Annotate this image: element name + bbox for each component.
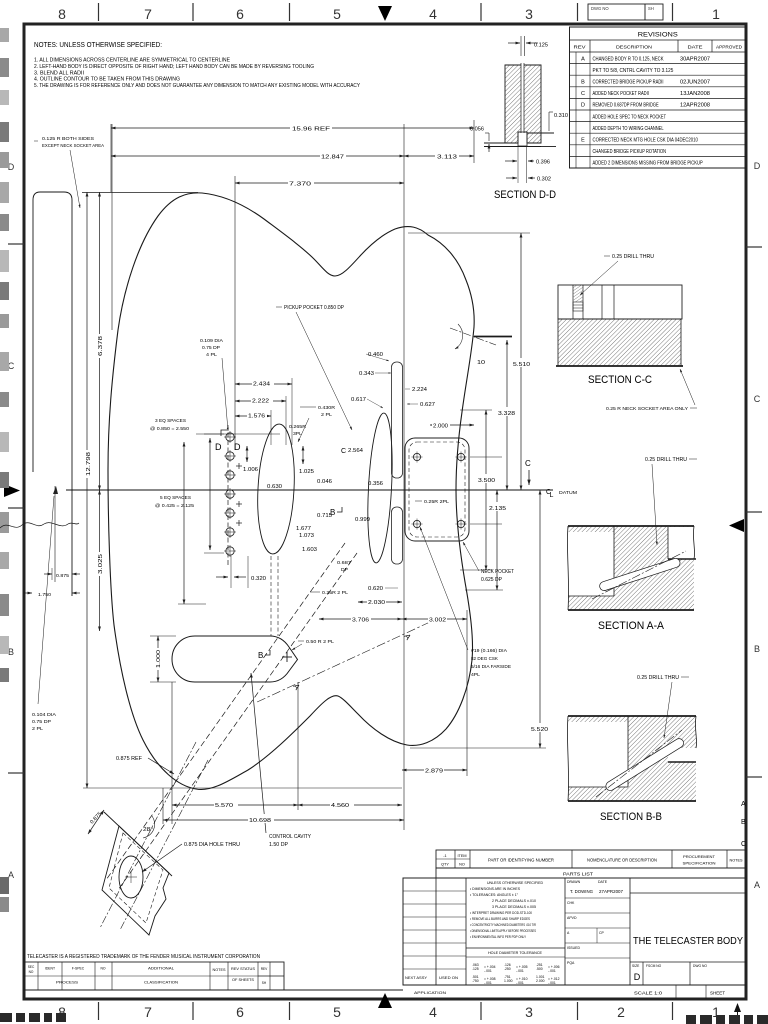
svg-text:• REMOVE ALL BURRS AND SHARP E: • REMOVE ALL BURRS AND SHARP EDGES [470, 917, 530, 921]
svg-text:• DIMENSIONS ARE IN INCHES: • DIMENSIONS ARE IN INCHES [470, 887, 521, 891]
svg-text:30APR2007: 30APR2007 [680, 56, 710, 62]
bottom dims [171, 682, 173, 824]
svg-text:A: A [741, 801, 746, 808]
svg-text:4. OUTLINE CONTOUR TO BE TAKEN: 4. OUTLINE CONTOUR TO BE TAKEN FROM THIS… [34, 77, 180, 83]
svg-text:10: 10 [477, 360, 485, 366]
svg-text:HOLE DIAMETER TOLERANCE: HOLE DIAMETER TOLERANCE [488, 951, 542, 955]
dim 12.798 [86, 192, 88, 788]
svg-text:7.370: 7.370 [289, 182, 311, 188]
dim 12.847 [403, 124, 405, 830]
svg-text:B: B [330, 508, 335, 517]
svg-text:NO: NO [29, 970, 34, 974]
section cut dashed lines to jack [106, 543, 345, 880]
svg-text:1.50 DP: 1.50 DP [269, 842, 289, 848]
svg-text:CORRECTED BRIDGE PICKUP RADII: CORRECTED BRIDGE PICKUP RADII [593, 80, 664, 86]
svg-text:2.564: 2.564 [348, 448, 363, 454]
eq spaces dim lines [204, 433, 224, 435]
svg-text:NOTES: UNLESS OTHERWISE SPECIF: NOTES: UNLESS OTHERWISE SPECIFIED: [34, 42, 162, 49]
svg-text:C: C [341, 448, 346, 455]
svg-text:NOMENCLATURE OR DESCRIPTION: NOMENCLATURE OR DESCRIPTION [587, 858, 657, 863]
svg-text:-.001: -.001 [548, 969, 556, 973]
svg-text:SECTION A-A: SECTION A-A [598, 620, 665, 632]
svg-text:13JAN2008: 13JAN2008 [680, 91, 710, 97]
svg-text:F-SPEC: F-SPEC [72, 967, 85, 971]
svg-text:4: 4 [429, 6, 437, 22]
svg-text:B: B [754, 644, 760, 654]
svg-text:C: C [525, 459, 531, 468]
svg-text:5/16 DIA FARSIDE: 5/16 DIA FARSIDE [471, 664, 511, 670]
bottom center arrow [378, 993, 392, 1008]
svg-text:L: L [550, 492, 554, 499]
svg-text:02JUN2007: 02JUN2007 [680, 80, 710, 86]
svg-text:0.627: 0.627 [420, 402, 435, 408]
svg-text:7: 7 [144, 6, 152, 22]
svg-text:1.006: 1.006 [243, 467, 258, 473]
svg-text:3.025: 3.025 [98, 554, 104, 574]
svg-text:ADDED HOLE SPEC TO NECK POCKET: ADDED HOLE SPEC TO NECK POCKET [593, 114, 667, 120]
svg-text:EXCEPT NECK SOCKET AREA: EXCEPT NECK SOCKET AREA [42, 143, 105, 149]
svg-text:NOTES: NOTES [213, 968, 227, 972]
svg-text:0.625 DP: 0.625 DP [481, 577, 503, 583]
svg-text:82 DEG CSK: 82 DEG CSK [471, 656, 499, 662]
svg-text:1.677: 1.677 [296, 526, 311, 532]
svg-text:CHANGED BODY R TO 0.125, NECK: CHANGED BODY R TO 0.125, NECK [593, 56, 664, 62]
svg-text:0.396: 0.396 [536, 160, 550, 166]
svg-text:-.001: -.001 [484, 981, 492, 985]
svg-text:3.328: 3.328 [498, 411, 515, 417]
string ferrule holes [226, 433, 234, 441]
section D-D hatched block [505, 65, 541, 143]
svg-text:PICKUP POCKET 0.850 DP: PICKUP POCKET 0.850 DP [284, 305, 345, 311]
svg-text:0.25R 2PL: 0.25R 2PL [424, 499, 449, 505]
svg-text:D: D [215, 442, 222, 452]
svg-text:CLASSIFICATION: CLASSIFICATION [144, 981, 178, 985]
svg-text:B: B [258, 651, 263, 660]
dim 1.576 [270, 410, 272, 445]
svg-text:FSCM NO: FSCM NO [646, 964, 662, 968]
jack dash-dot lines [120, 760, 208, 930]
svg-text:REV: REV [261, 967, 268, 971]
svg-text:5.520: 5.520 [531, 727, 548, 733]
svg-text:0.046: 0.046 [317, 479, 332, 485]
svg-text:0.356: 0.356 [368, 481, 383, 487]
centerline datum [66, 489, 553, 491]
A-A slot [599, 557, 682, 592]
svg-text:4: 4 [429, 1004, 437, 1020]
svg-text:REV: REV [574, 45, 586, 50]
dim 3.113 [404, 155, 474, 157]
squiggle break line [0, 523, 79, 528]
svg-text:1.000: 1.000 [156, 650, 162, 668]
svg-text:5. THE DRAWING IS FOR REFERENC: 5. THE DRAWING IS FOR REFERENCE ONLY AND… [34, 83, 360, 89]
dim 0.125 top [520, 36, 522, 56]
bridge pickup oval [365, 413, 396, 564]
svg-text:E: E [581, 138, 585, 144]
svg-text:DATE: DATE [598, 880, 608, 884]
neck pickup oval [255, 423, 298, 555]
svg-text:CHK: CHK [567, 901, 575, 905]
svg-text:6.378: 6.378 [98, 336, 104, 356]
ruler zone ticks top [98, 3, 100, 21]
svg-text:0.875 REF: 0.875 REF [116, 756, 142, 762]
svg-text:• ENVIRONMENTAL INFO PER PDP O: • ENVIRONMENTAL INFO PER PDP ONLY [470, 935, 526, 939]
dim 0.056 [488, 133, 490, 141]
svg-text:• INTERPRET DRAWING PER DOD-ST: • INTERPRET DRAWING PER DOD-STD-100 [470, 911, 532, 915]
svg-text:2.224: 2.224 [412, 387, 427, 393]
svg-text:NO: NO [100, 967, 105, 971]
svg-text:SPECIFICATION: SPECIFICATION [683, 861, 716, 866]
dim 0.310 [548, 112, 550, 131]
svg-text:UNLESS OTHERWISE SPECIFIED: UNLESS OTHERWISE SPECIFIED [487, 881, 543, 885]
svg-text:SIZE: SIZE [632, 964, 640, 968]
svg-text:NOTES: NOTES [730, 859, 743, 863]
svg-text:.750: .750 [472, 979, 479, 983]
guitar body outline [108, 193, 474, 790]
svg-text:APVD: APVD [567, 916, 577, 920]
dim 0.875 diamond [88, 810, 104, 834]
svg-text:DRAWN: DRAWN [567, 880, 581, 884]
body side profile (thickness view) [33, 192, 72, 596]
svg-text:0.104 DIA: 0.104 DIA [32, 712, 57, 718]
svg-text:1.025: 1.025 [299, 469, 314, 475]
profile centerline [54, 486, 56, 582]
svg-text:2.222: 2.222 [252, 399, 269, 405]
svg-text:4PL: 4PL [471, 672, 480, 678]
svg-text:PQA: PQA [567, 961, 575, 965]
svg-text:ADDED NECK POCKET RADII: ADDED NECK POCKET RADII [593, 91, 649, 97]
svg-text:8: 8 [58, 6, 66, 22]
scan artifact marks left edge [0, 28, 9, 42]
svg-text:SHEET: SHEET [710, 991, 725, 996]
svg-text:0.056: 0.056 [470, 127, 484, 133]
svg-text:SH: SH [648, 6, 654, 11]
svg-text:0.75 DP: 0.75 DP [32, 719, 51, 725]
drawn/check rows [629, 878, 631, 985]
svg-text:• CONCENTRICITY MACHINED DIAME: • CONCENTRICITY MACHINED DIAMETERS .010 … [470, 923, 536, 927]
svg-text:D: D [234, 442, 241, 452]
svg-text:2 PLACE DECIMALS ±.010: 2 PLACE DECIMALS ±.010 [492, 899, 536, 903]
svg-text:3. BLEND ALL RADII: 3. BLEND ALL RADII [34, 70, 84, 76]
svg-text:.250: .250 [504, 967, 511, 971]
svg-text:-.001: -.001 [484, 969, 492, 973]
svg-text:OF SHEETS: OF SHEETS [232, 978, 255, 982]
svg-text:-1: -1 [443, 854, 446, 858]
svg-text:0.999: 0.999 [355, 517, 370, 523]
svg-text:6: 6 [236, 6, 244, 22]
svg-text:2.000: 2.000 [536, 979, 545, 983]
section D-D base lines [484, 142, 518, 144]
svg-text:7: 7 [144, 1004, 152, 1020]
zone ticks right [746, 246, 762, 248]
svg-text:ADDED DEPTH TO WIRING CHANNEL: ADDED DEPTH TO WIRING CHANNEL [593, 126, 664, 132]
svg-text:0.430R: 0.430R [318, 405, 336, 411]
wire channel dashed [270, 556, 272, 636]
saddle screw crosses [238, 463, 240, 469]
neck pocket holes [413, 453, 420, 460]
svg-text:ADDITIONAL: ADDITIONAL [148, 967, 174, 971]
svg-text:ISSUED: ISSUED [567, 946, 581, 950]
left dim verticals [111, 124, 113, 330]
svg-text:2.434: 2.434 [253, 382, 270, 388]
svg-text:2.879: 2.879 [425, 769, 443, 775]
svg-text:3 EQ SPACES: 3 EQ SPACES [155, 418, 186, 424]
section A-A block [568, 526, 694, 610]
svg-text:CHANGED BRIDGE PICKUP ROTATION: CHANGED BRIDGE PICKUP ROTATION [593, 149, 667, 155]
dim 6.378 [99, 192, 101, 490]
section B-B block [568, 716, 696, 801]
top center arrow [378, 6, 392, 21]
svg-text:0.343: 0.343 [359, 371, 374, 377]
svg-text:DWG NO: DWG NO [693, 964, 707, 968]
control cavity cross [286, 652, 288, 662]
svg-text:0.617: 0.617 [351, 397, 366, 403]
svg-text:0.109 DIA: 0.109 DIA [200, 338, 224, 344]
svg-text:SH: SH [262, 981, 267, 985]
svg-text:TELECASTER IS A REGISTERED TRA: TELECASTER IS A REGISTERED TRADEMARK OF … [27, 954, 260, 960]
svg-text:0.125: 0.125 [534, 43, 548, 49]
svg-text:3.706: 3.706 [352, 618, 369, 624]
svg-text:1. ALL DIMENSIONS ACROSS CENTE: 1. ALL DIMENSIONS ACROSS CENTERLINE ARE … [34, 58, 230, 64]
svg-text:5.570: 5.570 [215, 803, 233, 809]
svg-text:3 PLACE DECIMALS ±.005: 3 PLACE DECIMALS ±.005 [492, 905, 536, 909]
svg-text:PROCUREMENT: PROCUREMENT [683, 854, 716, 859]
svg-text:0.320: 0.320 [251, 576, 266, 582]
svg-text:ITEM: ITEM [457, 854, 466, 858]
svg-text:USED ON: USED ON [439, 976, 458, 980]
svg-text:SECTION C-C: SECTION C-C [588, 374, 652, 386]
svg-text:REMOVED 0.687DP FROM BRIDGE: REMOVED 0.687DP FROM BRIDGE [593, 103, 660, 109]
svg-text:5 EQ SPACES: 5 EQ SPACES [160, 495, 191, 501]
svg-text:5.510: 5.510 [513, 362, 530, 368]
svg-text:PROCESS: PROCESS [56, 981, 79, 985]
svg-text:B: B [741, 819, 746, 826]
svg-text:C: C [754, 394, 761, 404]
svg-text:0.310: 0.310 [554, 113, 568, 119]
svg-text:27APR2007: 27APR2007 [599, 889, 623, 894]
svg-text:D: D [754, 161, 761, 171]
bridge pickup slots [392, 362, 403, 478]
dwg-no box top right [588, 4, 663, 20]
svg-text:@ 0.425 = 2.125: @ 0.425 = 2.125 [155, 503, 194, 509]
section D-D slot [521, 63, 524, 133]
svg-text:5: 5 [333, 6, 341, 22]
svg-text:SECTION B-B: SECTION B-B [600, 811, 662, 823]
spec text block [564, 878, 566, 985]
svg-text:0.50 R 2 PL: 0.50 R 2 PL [306, 639, 334, 645]
svg-text:THE TELECASTER BODY: THE TELECASTER BODY [633, 935, 743, 947]
svg-text:NO: NO [459, 863, 465, 867]
dim 2.222 [285, 396, 287, 445]
dims 3.002 / 2.879 [466, 610, 468, 776]
svg-text:SEC: SEC [28, 965, 35, 969]
svg-text:2.000: 2.000 [433, 424, 448, 430]
svg-text:PARTS LIST: PARTS LIST [563, 872, 593, 877]
svg-text:DESCRIPTION: DESCRIPTION [616, 45, 652, 50]
svg-text:SECTION D-D: SECTION D-D [494, 189, 556, 201]
svg-text:REVISIONS: REVISIONS [638, 32, 679, 39]
svg-text:DATUM: DATUM [559, 490, 577, 496]
svg-text:C: C [581, 91, 585, 97]
10 deg arc [455, 324, 463, 349]
svg-text:0.125 R BOTH SIDES: 0.125 R BOTH SIDES [42, 136, 94, 142]
svg-text:A: A [581, 56, 585, 62]
svg-text:0.687: 0.687 [337, 560, 351, 566]
jack plate diamond [104, 812, 172, 876]
title block top strip [436, 850, 746, 868]
svg-text:DP: DP [341, 567, 348, 573]
left edge centering arrow [4, 484, 20, 497]
svg-text:3PL: 3PL [293, 431, 302, 437]
svg-text:0.25 DRILL THRU: 0.25 DRILL THRU [645, 457, 687, 463]
dim 2.434 [291, 378, 293, 445]
svg-text:6: 6 [236, 1004, 244, 1020]
svg-text:D: D [581, 103, 585, 109]
svg-text:2.135: 2.135 [489, 506, 506, 512]
svg-text:2. LEFT-HAND BODY IS DIRECT OP: 2. LEFT-HAND BODY IS DIRECT OPPOSITE OF … [34, 64, 314, 70]
bottom right small arrow [737, 1012, 739, 1022]
svg-text:A: A [754, 880, 760, 890]
right vertical dims [408, 232, 530, 234]
svg-text:• TOLERANCES: ANGLES ± 1°: • TOLERANCES: ANGLES ± 1° [470, 893, 519, 897]
revisions table [570, 27, 747, 168]
leader 0.104 dia [38, 496, 54, 704]
svg-text:DATE: DATE [688, 45, 703, 50]
svg-text:PKT TO 5/8, CNTRL CAVITY TO 3.: PKT TO 5/8, CNTRL CAVITY TO 3.125 [593, 68, 674, 74]
svg-text:2: 2 [617, 1004, 625, 1020]
small dims around pickups [196, 433, 280, 435]
right edge centering arrow [729, 519, 744, 532]
svg-text:0.25 DRILL THRU: 0.25 DRILL THRU [637, 675, 679, 681]
svg-text:#19 (0.166) DIA: #19 (0.166) DIA [471, 648, 508, 654]
svg-text:APPLICATION: APPLICATION [414, 991, 446, 995]
svg-text:QTY: QTY [441, 863, 449, 867]
svg-text:28°: 28° [143, 827, 153, 833]
svg-text:1.073: 1.073 [299, 533, 314, 539]
svg-text:2 PL: 2 PL [32, 726, 43, 732]
dim 1.000 control cavity [157, 636, 159, 682]
svg-text:2.030: 2.030 [368, 600, 385, 606]
svg-text:REV STATUS: REV STATUS [231, 967, 256, 971]
svg-text:10.698: 10.698 [249, 818, 271, 824]
10 deg dash line [450, 328, 496, 345]
svg-text:CORRECTED NECK MTG HOLE CSK DI: CORRECTED NECK MTG HOLE CSK DIA 04DEC201… [593, 138, 698, 144]
dim 15.96 REF [110, 124, 112, 192]
svg-text:NEXT ASSY: NEXT ASSY [405, 976, 427, 980]
svg-text:15.96 REF: 15.96 REF [292, 127, 330, 133]
svg-text:1: 1 [712, 6, 720, 22]
svg-text:B: B [581, 80, 585, 86]
angle ref thick line [474, 336, 512, 338]
size row [642, 962, 644, 985]
svg-text:3: 3 [525, 6, 533, 22]
svg-text:IDENT: IDENT [45, 967, 55, 971]
section D cut line [227, 425, 229, 566]
svg-text:PART OR IDENTIFYING NUMBER: PART OR IDENTIFYING NUMBER [488, 858, 554, 863]
left application grid [435, 878, 437, 985]
svg-text:ADDED 2 DIMENSIONS MISSING FRO: ADDED 2 DIMENSIONS MISSING FROM BRIDGE P… [593, 161, 704, 167]
svg-text:.125: .125 [472, 967, 479, 971]
control cavity plate [172, 636, 298, 682]
svg-text:12APR2008: 12APR2008 [680, 103, 710, 109]
scan artifact marks bottom-left corner [0, 1013, 12, 1022]
svg-text:0.875 DIA HOLE THRU: 0.875 DIA HOLE THRU [184, 842, 240, 848]
svg-text:0.25 DRILL THRU: 0.25 DRILL THRU [612, 254, 654, 260]
svg-text:• DIMENSIONAL LIMITS APPLY BEF: • DIMENSIONAL LIMITS APPLY BEFORE PROCES… [470, 929, 536, 933]
svg-text:0.630: 0.630 [267, 484, 282, 490]
svg-text:1.576: 1.576 [248, 414, 265, 420]
svg-text:0.265R: 0.265R [289, 424, 307, 430]
bottom-left table [24, 962, 284, 990]
svg-text:-.001: -.001 [516, 969, 524, 973]
svg-text:@ 0.850 = 2.550: @ 0.850 = 2.550 [150, 426, 189, 432]
svg-text:0.620: 0.620 [368, 586, 383, 592]
svg-text:D: D [634, 972, 641, 982]
svg-text:0.302: 0.302 [537, 177, 551, 183]
svg-text:DWG NO: DWG NO [591, 6, 609, 11]
svg-text:5: 5 [333, 1004, 341, 1020]
scan artifact marks bottom-right corner [686, 1015, 696, 1024]
parts list row [436, 868, 746, 878]
title block main box [403, 878, 746, 985]
svg-text:0.25 R NECK SOCKET AREA ONLY: 0.25 R NECK SOCKET AREA ONLY [606, 406, 689, 412]
svg-text:0.75 DP: 0.75 DP [202, 345, 220, 351]
svg-text:.500: .500 [536, 967, 543, 971]
svg-text:0.875: 0.875 [56, 573, 69, 579]
strap hole mark [53, 486, 58, 494]
svg-text:4 PL: 4 PL [206, 352, 217, 358]
svg-text:3.002: 3.002 [429, 618, 446, 624]
zone ticks left [8, 243, 24, 245]
svg-text:SCALE 1:0: SCALE 1:0 [634, 991, 663, 996]
neck pocket [405, 438, 469, 541]
svg-text:2 PL: 2 PL [321, 412, 332, 418]
svg-text:12.798: 12.798 [86, 452, 92, 476]
pocket dim extension lines [470, 456, 502, 458]
svg-text:3: 3 [525, 1004, 533, 1020]
svg-text:1.000: 1.000 [504, 979, 513, 983]
svg-text:1.750: 1.750 [38, 592, 51, 598]
dim 7.370 [234, 176, 236, 450]
title box [630, 892, 746, 894]
svg-text:-.001: -.001 [516, 981, 524, 985]
dim 3.025 [99, 490, 101, 631]
jack hole [119, 856, 143, 898]
svg-text:12.847: 12.847 [321, 155, 344, 161]
dim 0.396 [517, 146, 519, 183]
section D-D plug piece [518, 132, 527, 146]
svg-text:1.603: 1.603 [302, 547, 317, 553]
svg-text:-.001: -.001 [548, 981, 556, 985]
svg-text:0.25R 2 PL: 0.25R 2 PL [322, 590, 348, 596]
dim 0.302 [506, 177, 517, 179]
svg-text:APPROVED: APPROVED [716, 45, 743, 50]
svg-text:CP: CP [599, 931, 605, 935]
svg-text:T. DOWING: T. DOWING [570, 889, 593, 894]
svg-text:C: C [741, 841, 746, 848]
ruler zone ticks bottom [98, 1002, 100, 1020]
svg-text:3.500: 3.500 [478, 478, 495, 484]
svg-text:3.113: 3.113 [437, 155, 457, 161]
svg-text:4.560: 4.560 [331, 803, 349, 809]
svg-text:CONTROL CAVITY: CONTROL CAVITY [269, 834, 312, 840]
